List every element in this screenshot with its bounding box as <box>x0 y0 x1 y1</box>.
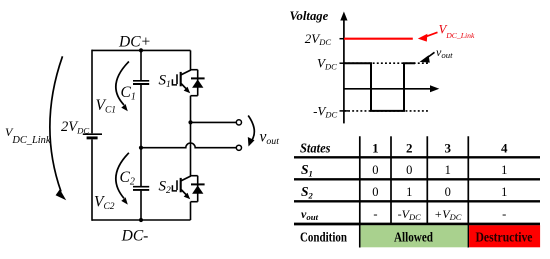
table row vout <box>301 207 506 222</box>
table vertical separator 1 <box>359 136 361 247</box>
table header state numbers <box>372 140 508 155</box>
svg-text:0: 0 <box>445 185 451 199</box>
svg-text:1: 1 <box>501 163 507 177</box>
table vertical separator 4 <box>467 136 469 247</box>
svg-text:1: 1 <box>372 140 379 155</box>
waveform y-axis <box>340 12 347 124</box>
svg-text:DC+: DC+ <box>118 34 151 51</box>
table vertical separator 3 <box>426 136 428 224</box>
waveform x-axis <box>344 85 439 92</box>
svg-text:-: - <box>502 207 506 221</box>
wire left lower <box>91 139 93 220</box>
wire switch branch top <box>190 50 192 70</box>
table row Condition <box>300 230 533 245</box>
arrow VDC_Link <box>50 56 66 200</box>
arrow VC1 <box>116 62 129 112</box>
table row S2 <box>301 184 507 200</box>
capacitor C2 <box>133 187 149 190</box>
wire bottom bus DC- <box>92 219 191 221</box>
arrow to VDC_Link line (red) <box>418 32 438 41</box>
junction switch midpoint <box>188 120 192 124</box>
svg-text:0: 0 <box>406 163 412 177</box>
tick -VDC <box>340 110 349 112</box>
svg-text:-: - <box>373 207 377 221</box>
svg-text:1: 1 <box>406 185 412 199</box>
table row S1 <box>301 162 507 178</box>
table horizontal line below S1 row <box>294 178 540 180</box>
cell Allowed (green) <box>361 225 468 247</box>
svg-text:Condition: Condition <box>300 230 347 245</box>
wire left upper <box>91 50 93 134</box>
svg-text:Voltage: Voltage <box>290 9 329 23</box>
wire bottom output with hop over switch branch <box>141 143 236 148</box>
svg-text:4: 4 <box>501 140 508 155</box>
wire switch branch bottom <box>190 202 192 220</box>
svg-text:0: 0 <box>372 163 378 177</box>
tick 2VDC <box>340 38 349 40</box>
table horizontal line below S2 row <box>294 200 540 202</box>
svg-text:States: States <box>300 140 331 155</box>
wire capacitor branch middle <box>140 85 142 186</box>
svg-text:Destructive: Destructive <box>476 230 533 245</box>
dotted line -VDC level <box>344 110 430 112</box>
wire capacitor branch upper <box>140 50 142 80</box>
junction top of capacitor branch <box>139 48 143 52</box>
dotted line VDC level <box>344 62 430 64</box>
tick VDC <box>340 62 349 64</box>
terminal top output <box>236 120 241 125</box>
line VDC_Link level (red) <box>344 38 413 40</box>
junction capacitor midpoint <box>139 146 143 150</box>
terminal bottom output <box>236 145 241 150</box>
cell Destructive (red) <box>469 225 540 247</box>
transistor S2 (IGBT with antiparallel diode) <box>172 176 204 202</box>
junction bottom of capacitor branch <box>139 218 143 222</box>
wire switch branch middle <box>190 96 192 177</box>
svg-text:DC-: DC- <box>121 228 149 245</box>
svg-text:3: 3 <box>445 140 452 155</box>
wire top output <box>191 121 237 123</box>
svg-text:0: 0 <box>372 185 378 199</box>
arrow vout (circuit) <box>248 116 255 147</box>
transistor S1 (IGBT with antiparallel diode) <box>172 70 204 96</box>
svg-text:1: 1 <box>501 185 507 199</box>
waveform vout square wave <box>344 63 415 111</box>
arrow to vout waveform <box>420 52 435 62</box>
wire capacitor branch lower <box>140 191 142 220</box>
capacitor C1 <box>133 81 149 84</box>
arrow VC2 <box>116 153 129 205</box>
table horizontal line below header <box>294 156 540 158</box>
table vertical separator 2 <box>390 136 392 224</box>
svg-text:2: 2 <box>406 140 413 155</box>
battery 2VDC <box>83 134 102 138</box>
svg-text:1: 1 <box>445 163 451 177</box>
wire top bus DC+ <box>92 49 191 51</box>
svg-text:Allowed: Allowed <box>394 230 433 245</box>
table horizontal line below vout row <box>294 223 540 226</box>
